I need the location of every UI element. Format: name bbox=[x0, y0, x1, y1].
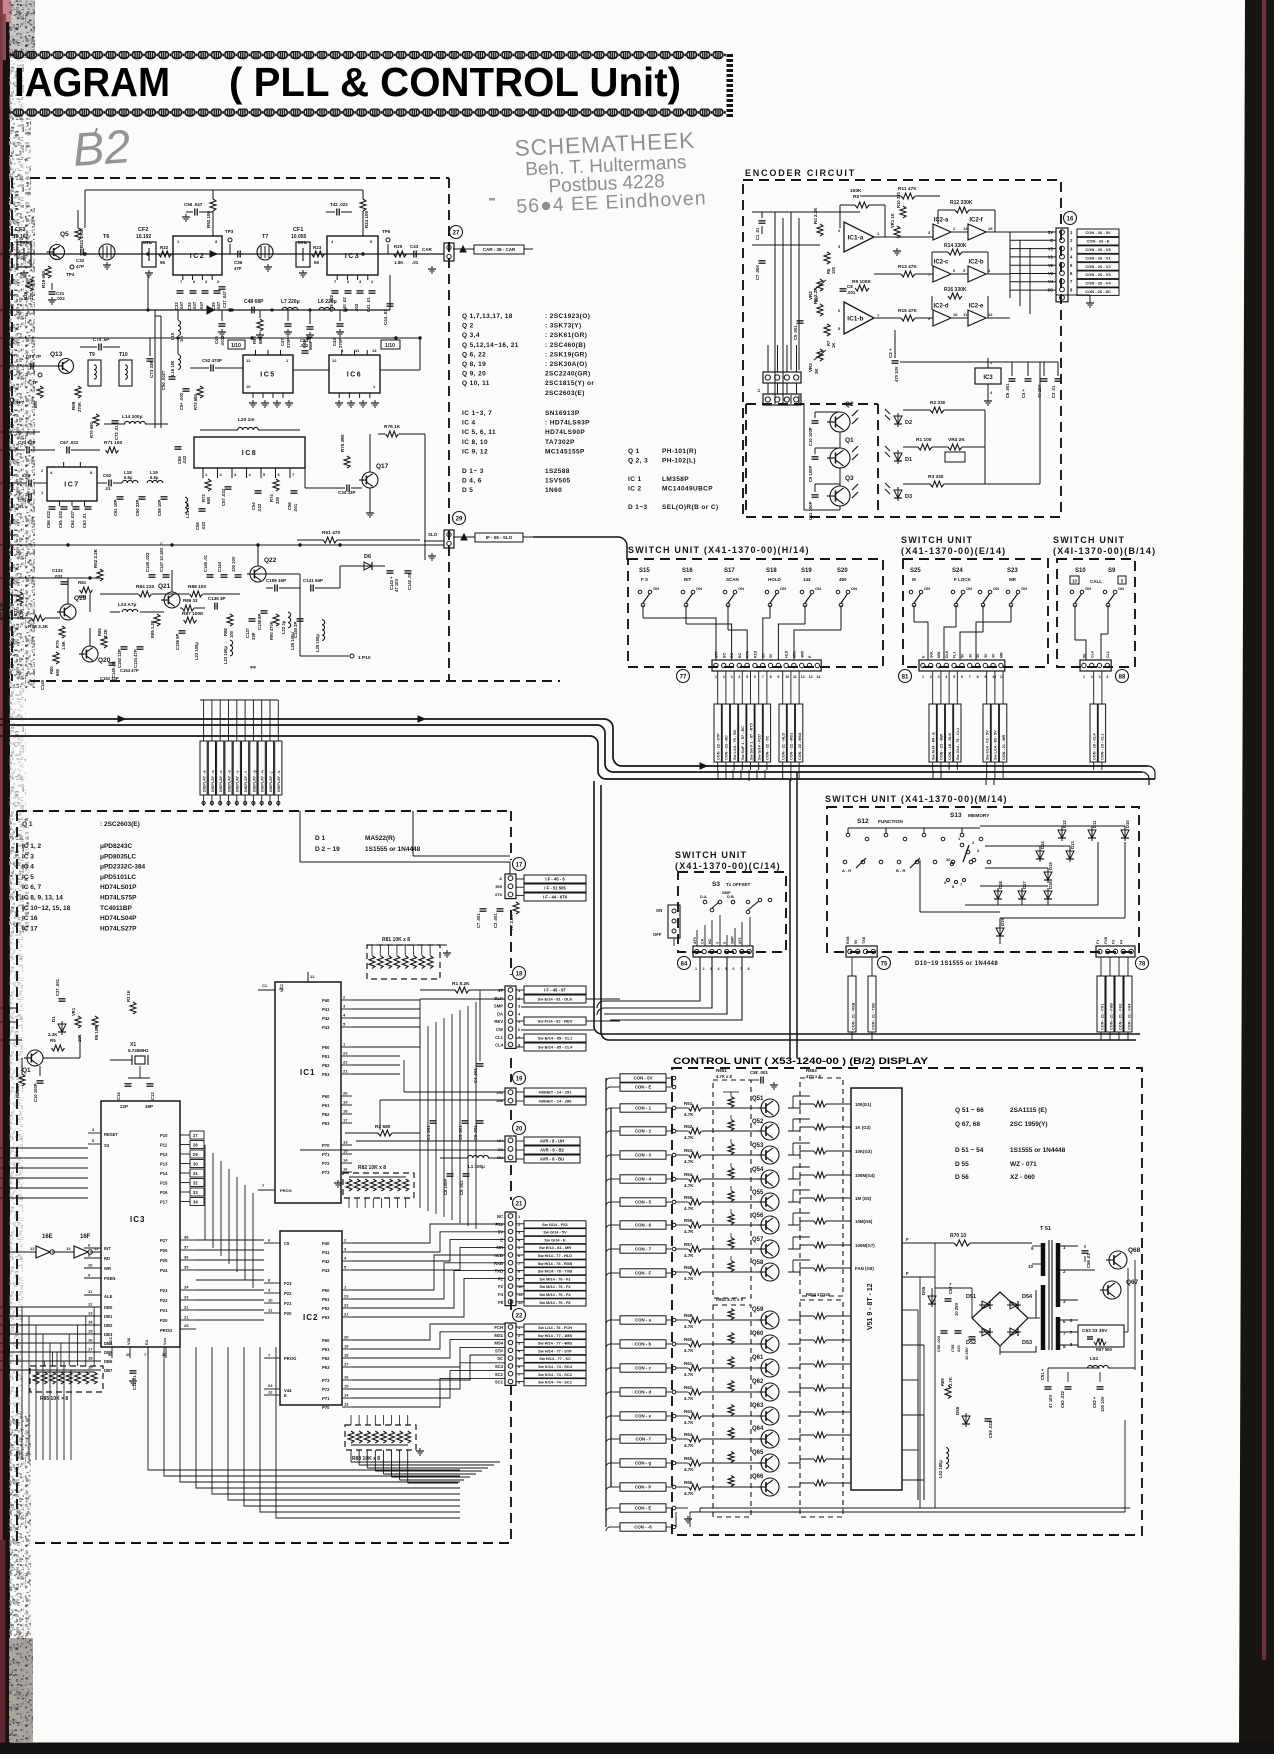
svg-text:4.7K: 4.7K bbox=[684, 1372, 694, 1377]
svg-text:PH-102(L): PH-102(L) bbox=[662, 458, 696, 465]
svg-text:680: 680 bbox=[33, 400, 38, 408]
svg-text:22P: 22P bbox=[120, 1104, 128, 1109]
capacitor C31 .022 bbox=[49, 291, 56, 293]
svg-text:CON - 21 - MR: CON - 21 - MR bbox=[1002, 734, 1006, 760]
IC3 box bbox=[327, 236, 378, 275]
svg-text:Sw E/14 - 81 - DLK: Sw E/14 - 81 - DLK bbox=[538, 996, 573, 1001]
svg-text:220: 220 bbox=[29, 292, 34, 300]
svg-text:DISPLAY - g: DISPLAY - g bbox=[252, 770, 256, 792]
svg-text:CON - 26 - V2: CON - 26 - V2 bbox=[1085, 264, 1111, 269]
transistor Q67 bbox=[1103, 1281, 1121, 1299]
wire SLO loop bbox=[532, 536, 534, 538]
svg-text:34: 34 bbox=[193, 1200, 198, 1205]
svg-text:C9 100P: C9 100P bbox=[808, 465, 813, 482]
capacitor C148 .022 bbox=[149, 574, 156, 576]
main signal wire row1 bbox=[0, 253, 444, 255]
svg-text:C51 +: C51 + bbox=[1040, 1368, 1045, 1380]
svg-text:C54: C54 bbox=[251, 502, 256, 510]
svg-text:SC: SC bbox=[497, 1356, 503, 1361]
diode D13 bbox=[1066, 851, 1074, 859]
svg-text:100(G1): 100(G1) bbox=[855, 1102, 872, 1107]
svg-text:Sw L/14 - 79 - BC: Sw L/14 - 79 - BC bbox=[733, 729, 737, 760]
svg-text:PH-101(R): PH-101(R) bbox=[662, 448, 697, 455]
display transistors Q59-Q66 bbox=[761, 1311, 779, 1329]
svg-text:R2 330: R2 330 bbox=[930, 400, 946, 406]
svg-text:A - R: A - R bbox=[842, 868, 851, 873]
svg-text:R65: R65 bbox=[684, 1456, 693, 1461]
svg-text:Q17: Q17 bbox=[376, 463, 389, 470]
svg-text:C58 .01: C58 .01 bbox=[1086, 1253, 1091, 1268]
transistor Q5 bbox=[50, 245, 65, 260]
svg-text:16: 16 bbox=[344, 1375, 349, 1380]
svg-text:CON - 21 - HLD: CON - 21 - HLD bbox=[782, 733, 786, 760]
svg-text:L35 100μ: L35 100μ bbox=[315, 634, 320, 652]
svg-text:OFF: OFF bbox=[653, 932, 662, 937]
svg-text:P21: P21 bbox=[160, 1308, 168, 1313]
capacitor C47 270P bbox=[285, 323, 292, 325]
svg-text:18: 18 bbox=[344, 1353, 349, 1358]
display inner verticals bbox=[934, 1243, 936, 1508]
svg-text:P61: P61 bbox=[322, 1103, 330, 1108]
svg-text:CF2: CF2 bbox=[138, 227, 148, 233]
resistor R70 680 bbox=[93, 414, 99, 426]
svg-text:22: 22 bbox=[516, 1313, 523, 1319]
svg-text:R16 330K: R16 330K bbox=[944, 287, 967, 293]
left DB bus wires bbox=[0, 1306, 84, 1308]
svg-text:4.7K: 4.7K bbox=[684, 1491, 694, 1496]
svg-text:Q22: Q22 bbox=[264, 557, 277, 564]
switch unit riser drops bbox=[717, 770, 719, 780]
capacitor C54 .022 bbox=[255, 490, 262, 492]
svg-text:R852 4.7K x 8: R852 4.7K x 8 bbox=[716, 1297, 744, 1302]
svg-text:C57 .022: C57 .022 bbox=[221, 488, 226, 506]
svg-text:SC4: SC4 bbox=[495, 1364, 504, 1369]
svg-text:SCAN: SCAN bbox=[726, 577, 739, 582]
svg-text:T6: T6 bbox=[103, 234, 109, 240]
svg-text:16F: 16F bbox=[80, 1234, 91, 1240]
svg-text:L20 1m: L20 1m bbox=[238, 417, 255, 423]
svg-text:D 51 ~ 54: D 51 ~ 54 bbox=[955, 1147, 984, 1154]
svg-text:Sw H/14 - 77 - HLD: Sw H/14 - 77 - HLD bbox=[538, 1253, 572, 1258]
svg-text:270K: 270K bbox=[77, 402, 82, 412]
svg-text:9: 9 bbox=[984, 675, 986, 679]
svg-text:D 1~ 3: D 1~ 3 bbox=[462, 468, 484, 475]
svg-text:13: 13 bbox=[66, 1246, 71, 1251]
display CON labels column bbox=[620, 1074, 666, 1082]
svg-text:3: 3 bbox=[731, 675, 733, 679]
svg-text:14: 14 bbox=[344, 1393, 349, 1398]
capacitor C34 33P bbox=[346, 485, 348, 492]
svg-text:17: 17 bbox=[88, 1347, 93, 1352]
svg-text:IC 2: IC 2 bbox=[628, 486, 642, 493]
svg-text:D13: D13 bbox=[1070, 841, 1075, 849]
VR1 10K bbox=[75, 1016, 81, 1028]
C/14 down wires to bus bbox=[604, 957, 700, 1001]
capacitor C13 39P bbox=[147, 1083, 154, 1085]
svg-text:38: 38 bbox=[184, 1235, 189, 1240]
svg-text:10: 10 bbox=[246, 384, 251, 389]
resistor R81 12K bbox=[80, 587, 93, 593]
svg-text:CON - f: CON - f bbox=[635, 1437, 651, 1442]
svg-text:L21 1m: L21 1m bbox=[185, 503, 190, 518]
svg-text:AVR - 8 - BU: AVR - 8 - BU bbox=[540, 1156, 564, 1161]
labels IF-45 bbox=[524, 875, 586, 883]
svg-text:PROG: PROG bbox=[280, 1188, 292, 1193]
svg-text:C159 16P: C159 16P bbox=[266, 578, 286, 583]
capacitor C2 470 10V bbox=[892, 360, 899, 362]
svg-text:10 25V: 10 25V bbox=[954, 1303, 959, 1316]
svg-text:IC2-b: IC2-b bbox=[969, 260, 984, 266]
capacitor C69 bbox=[28, 480, 30, 487]
resistor R3 1K bbox=[130, 1002, 136, 1014]
resistor R23 56 bbox=[312, 251, 325, 257]
svg-text:C66 .022: C66 .022 bbox=[46, 510, 51, 528]
svg-text:Q57: Q57 bbox=[752, 1237, 764, 1243]
wires row4 bbox=[257, 545, 259, 566]
svg-text:CON - 21 - FX1: CON - 21 - FX1 bbox=[1101, 1004, 1105, 1030]
svg-text:.022: .022 bbox=[201, 521, 206, 530]
svg-text:IC2-a: IC2-a bbox=[934, 218, 949, 224]
svg-text:P20: P20 bbox=[160, 1318, 168, 1323]
svg-text:MS4: MS4 bbox=[494, 1341, 503, 1346]
caps near connector 17 bbox=[480, 908, 487, 910]
capacitor C143 47 10V bbox=[387, 570, 394, 572]
svg-text:1: 1 bbox=[922, 675, 924, 679]
svg-text:IC2-f: IC2-f bbox=[969, 218, 983, 224]
svg-text:47P: 47P bbox=[234, 266, 242, 271]
transistor Q19 bbox=[60, 604, 76, 620]
svg-text:R5: R5 bbox=[853, 194, 859, 200]
diode D55 bbox=[928, 1296, 936, 1304]
resistor R4 15K bbox=[19, 1074, 25, 1086]
svg-text:RD: RD bbox=[104, 1256, 110, 1261]
svg-text:C37 .047: C37 .047 bbox=[222, 290, 227, 308]
svg-text:: HD74LS93P: : HD74LS93P bbox=[545, 420, 590, 427]
svg-text:B2: B2 bbox=[71, 119, 132, 176]
svg-text:C55: C55 bbox=[950, 1344, 955, 1352]
capacitor C52 100 10V bbox=[1097, 1386, 1104, 1388]
svg-text:R5: R5 bbox=[50, 1038, 56, 1043]
svg-text:R74: R74 bbox=[269, 494, 274, 502]
resistor R66 680 left bbox=[37, 386, 43, 398]
svg-text:DB2: DB2 bbox=[104, 1323, 113, 1328]
svg-text:IC 17: IC 17 bbox=[22, 925, 38, 932]
svg-text:CON - 5: CON - 5 bbox=[635, 1200, 652, 1205]
diode bridge D51-D54 bbox=[972, 1292, 1028, 1346]
svg-text:P16: P16 bbox=[160, 1190, 168, 1195]
LED D1 bbox=[894, 453, 902, 461]
capacitor C9 100P enc bbox=[812, 456, 819, 458]
svg-text:D-B: D-B bbox=[727, 895, 734, 899]
svg-text:DISPLAY - j: DISPLAY - j bbox=[269, 772, 273, 792]
display ribbon connector strips bbox=[200, 741, 207, 795]
encoder circuit dashed box bbox=[743, 180, 1061, 517]
inductor L21 1m bbox=[185, 497, 188, 513]
svg-text:1 P10: 1 P10 bbox=[358, 655, 371, 661]
svg-text:Q19: Q19 bbox=[74, 595, 87, 602]
svg-text:LM358P: LM358P bbox=[662, 476, 689, 483]
svg-text:CON - 22 - 5C: CON - 22 - 5C bbox=[766, 735, 770, 760]
svg-text:C147 10.16V: C147 10.16V bbox=[159, 547, 164, 572]
capacitor C140 2P bbox=[297, 618, 304, 620]
inductor L52 bbox=[946, 1448, 949, 1469]
svg-text:P71: P71 bbox=[322, 1152, 330, 1157]
svg-text:C2 +: C2 + bbox=[888, 348, 893, 358]
svg-text:C50 .0027: C50 .0027 bbox=[161, 370, 166, 390]
svg-text:TXB: TXB bbox=[862, 936, 866, 944]
capacitor C58 .022 bbox=[199, 508, 206, 510]
svg-text:CF3: CF3 bbox=[15, 227, 25, 233]
svg-text:R19 680: R19 680 bbox=[41, 270, 46, 288]
E/14 con labels column2 bbox=[983, 704, 990, 762]
SLO loop wire bbox=[533, 536, 612, 538]
svg-text:10 25V: 10 25V bbox=[964, 1347, 969, 1360]
svg-text:Sw H/14 - 77 - SC: Sw H/14 - 77 - SC bbox=[539, 1356, 571, 1361]
svg-text:CON - E: CON - E bbox=[635, 1506, 652, 1511]
svg-text:Sw J/14 - 75 - CL1: Sw J/14 - 75 - CL1 bbox=[956, 728, 960, 760]
svg-text:16: 16 bbox=[1067, 216, 1074, 222]
label IF-55-SLO bbox=[475, 533, 523, 542]
svg-text:CON - c: CON - c bbox=[635, 1366, 652, 1371]
svg-text:CL1: CL1 bbox=[495, 1035, 504, 1040]
svg-text:R67 550: R67 550 bbox=[1096, 1347, 1113, 1352]
capacitor C138 8P bbox=[261, 610, 268, 612]
svg-text:MHz: MHz bbox=[298, 240, 308, 245]
diode D12 bbox=[1058, 830, 1066, 838]
svg-text:L16 100: L16 100 bbox=[170, 360, 175, 376]
svg-text:D12: D12 bbox=[1062, 820, 1067, 828]
svg-text:5: 5 bbox=[723, 942, 727, 944]
capacitor C137 33P bbox=[249, 618, 256, 620]
svg-text:T42 .022: T42 .022 bbox=[330, 202, 348, 207]
labels at connector 20 bbox=[524, 1137, 580, 1145]
svg-text:8: 8 bbox=[977, 675, 979, 679]
svg-text:Q 6, 22: Q 6, 22 bbox=[462, 351, 486, 358]
svg-text:R77 3.3K: R77 3.3K bbox=[0, 602, 4, 620]
svg-text:23: 23 bbox=[343, 1051, 348, 1056]
svg-text:HLD: HLD bbox=[785, 650, 789, 658]
svg-text:R3 1K: R3 1K bbox=[126, 990, 131, 1002]
svg-text:IC 1, 2: IC 1, 2 bbox=[22, 843, 42, 850]
svg-text:10: 10 bbox=[946, 857, 951, 862]
capacitor C10 100P bbox=[812, 420, 819, 422]
control unit left dashed box bbox=[17, 810, 511, 812]
svg-text:Sw B/14 - 85 - CL4: Sw B/14 - 85 - CL4 bbox=[538, 1044, 573, 1049]
svg-text:R80: R80 bbox=[49, 666, 54, 674]
transistor Q13 bbox=[59, 359, 74, 374]
svg-text:P40: P40 bbox=[322, 1241, 330, 1246]
crystal filter CF1 bbox=[296, 242, 310, 267]
resistor R71 100 bbox=[106, 447, 119, 453]
wire bundle IC3 to IC2 bbox=[196, 1239, 264, 1241]
resistor R11 47K bbox=[901, 193, 915, 199]
svg-text:Sw #/14 - F3 - 5V: Sw #/14 - F3 - 5V bbox=[986, 730, 990, 760]
IC2 to connectors wire fan bbox=[352, 1224, 505, 1243]
svg-text:AF1: AF1 bbox=[738, 937, 742, 944]
svg-text:D10~19 1S1555 or 1N4448: D10~19 1S1555 or 1N4448 bbox=[915, 961, 998, 967]
svg-text:4.7K: 4.7K bbox=[684, 1276, 694, 1281]
svg-text:ON: ON bbox=[738, 586, 744, 591]
resistor R12 330K bbox=[955, 207, 969, 213]
svg-text:4.7K: 4.7K bbox=[684, 1112, 694, 1117]
bus arrowheads bbox=[118, 716, 125, 722]
svg-text:470 10V: 470 10V bbox=[894, 366, 899, 382]
svg-text:D52: D52 bbox=[966, 1340, 976, 1346]
svg-text:4.7K: 4.7K bbox=[684, 1206, 694, 1211]
svg-text:450: 450 bbox=[839, 577, 847, 582]
svg-text:1M (G5): 1M (G5) bbox=[855, 1196, 872, 1201]
svg-text:D14: D14 bbox=[1040, 841, 1045, 849]
svg-text:10M(G6): 10M(G6) bbox=[855, 1219, 873, 1224]
M/14 diode matrix wires bbox=[980, 825, 1125, 827]
svg-text:C154 47P: C154 47P bbox=[120, 668, 139, 673]
svg-text:R56: R56 bbox=[684, 1218, 693, 1223]
svg-text:P63: P63 bbox=[322, 1121, 330, 1126]
svg-text:Q3: Q3 bbox=[845, 475, 854, 482]
svg-text:TP3: TP3 bbox=[225, 229, 234, 234]
long vertical wires mid bbox=[419, 1030, 421, 1208]
svg-text:4.7K: 4.7K bbox=[684, 1396, 694, 1401]
svg-text:CON - 4: CON - 4 bbox=[635, 1177, 652, 1182]
svg-text:4M5: 4M5 bbox=[800, 651, 804, 658]
svg-text:IC2-d: IC2-d bbox=[934, 304, 949, 310]
svg-text:L51: L51 bbox=[1090, 1356, 1099, 1362]
svg-text:1N60: 1N60 bbox=[545, 487, 562, 494]
svg-text:S3: S3 bbox=[104, 1143, 110, 1148]
svg-text:IC5: IC5 bbox=[260, 371, 275, 378]
svg-text:Q59: Q59 bbox=[752, 1307, 764, 1313]
inductor L15 1m bbox=[178, 321, 181, 336]
svg-text:1: 1 bbox=[1083, 675, 1085, 679]
svg-text:FUNCTION: FUNCTION bbox=[878, 819, 903, 825]
svg-text:CON - 7: CON - 7 bbox=[635, 1247, 652, 1252]
svg-text:BC: BC bbox=[722, 652, 726, 658]
connector 22 bbox=[513, 1309, 526, 1322]
svg-text:P53: P53 bbox=[322, 1315, 330, 1320]
resistor R88b 100 bbox=[227, 614, 233, 626]
svg-text:CAR - 38 - CAR: CAR - 38 - CAR bbox=[483, 247, 516, 252]
resistor R22 56 bbox=[159, 251, 172, 257]
svg-text:ALE: ALE bbox=[104, 1294, 113, 1299]
H/14 con labels column2 bbox=[779, 704, 786, 762]
svg-text:4.7K: 4.7K bbox=[684, 1467, 694, 1472]
svg-text:C151 33P: C151 33P bbox=[4, 541, 9, 560]
buffer IC2-e bbox=[968, 310, 986, 326]
svg-text:CW: CW bbox=[496, 1027, 503, 1032]
capacitor C48 68P bbox=[251, 307, 253, 314]
resistor network R854 dashed bbox=[800, 1300, 843, 1517]
svg-text:R81: R81 bbox=[78, 580, 87, 585]
svg-text:2: 2 bbox=[703, 967, 705, 971]
svg-text:Sw L/14 - 80 - 5V: Sw L/14 - 80 - 5V bbox=[994, 730, 998, 760]
svg-text:Sw E/14 - 81 - MR: Sw E/14 - 81 - MR bbox=[539, 1245, 571, 1250]
svg-text:( PLL & CONTROL Unit): ( PLL & CONTROL Unit) bbox=[229, 59, 681, 105]
svg-text:SOL: SOL bbox=[929, 650, 933, 658]
svg-text:C52 +: C52 + bbox=[1092, 1396, 1097, 1408]
svg-text:DLK: DLK bbox=[494, 996, 503, 1001]
svg-text:DLK: DLK bbox=[945, 650, 949, 658]
capacitor C147 bbox=[163, 574, 170, 576]
svg-text:R88 100: R88 100 bbox=[188, 584, 206, 590]
left scan edge black bar bbox=[3, 0, 11, 1754]
svg-text:3V: 3V bbox=[976, 653, 980, 658]
svg-text:NC: NC bbox=[497, 1214, 503, 1219]
svg-text:Q13: Q13 bbox=[50, 351, 63, 358]
svg-text:D17: D17 bbox=[1022, 881, 1027, 889]
svg-text:R61: R61 bbox=[684, 1361, 693, 1366]
svg-text:P73: P73 bbox=[322, 1170, 330, 1175]
capacitor C51 47 10V bbox=[1045, 1386, 1052, 1388]
svg-text:84: 84 bbox=[681, 961, 688, 967]
svg-text:IC2-e: IC2-e bbox=[969, 304, 984, 310]
svg-text:Q64: Q64 bbox=[752, 1426, 764, 1432]
svg-text:47 10V: 47 10V bbox=[1048, 1395, 1053, 1408]
svg-text:R59: R59 bbox=[684, 1313, 693, 1318]
svg-text:P23: P23 bbox=[284, 1281, 292, 1286]
svg-text:C155 5P: C155 5P bbox=[175, 633, 180, 650]
resistor R51 470 bbox=[323, 537, 337, 543]
wire bus mid risers bbox=[147, 275, 149, 310]
svg-text:3V: 3V bbox=[984, 653, 988, 658]
svg-text:HD74LS27P: HD74LS27P bbox=[100, 925, 137, 932]
svg-text:IC3: IC3 bbox=[130, 1215, 145, 1224]
svg-text:.022: .022 bbox=[56, 296, 65, 301]
title banner right dashed corner bbox=[727, 54, 734, 57]
svg-text:CON - 26 - 5V: CON - 26 - 5V bbox=[1085, 230, 1111, 235]
svg-text:DISPLAY - h: DISPLAY - h bbox=[261, 770, 265, 792]
resistor R73 680 bbox=[205, 479, 211, 491]
svg-text:Sw M/14 - 76 - F2: Sw M/14 - 76 - F2 bbox=[539, 1284, 571, 1289]
svg-text:MHz: MHz bbox=[20, 240, 30, 245]
inductor L22 bbox=[288, 612, 291, 628]
svg-text:9: 9 bbox=[777, 675, 779, 679]
svg-text:CL4: CL4 bbox=[495, 1043, 504, 1048]
svg-text:P21: P21 bbox=[284, 1301, 292, 1306]
labels at connector 19 bbox=[524, 1088, 586, 1096]
svg-text:560P: 560P bbox=[308, 340, 313, 350]
svg-text:C1 .001: C1 .001 bbox=[426, 1125, 431, 1140]
wire bus row2 bbox=[0, 337, 420, 339]
resistor R93 680 bbox=[257, 319, 263, 331]
svg-text:31: 31 bbox=[193, 1171, 198, 1176]
svg-text:EA: EA bbox=[144, 1339, 149, 1345]
svg-text:Sw F/14 - 82 - REV: Sw F/14 - 82 - REV bbox=[538, 1018, 573, 1023]
svg-text:I F - 45 - 9T: I F - 45 - 9T bbox=[544, 987, 566, 992]
capacitor C7 .004 bbox=[759, 260, 766, 262]
resistor R24 100 bbox=[360, 199, 366, 211]
svg-text:P52: P52 bbox=[322, 1306, 330, 1311]
capacitor C53 .022 bbox=[302, 350, 309, 352]
svg-text:IC 1: IC 1 bbox=[628, 476, 642, 483]
capacitor C68 .022 bbox=[175, 446, 182, 448]
svg-text:Q 3,4: Q 3,4 bbox=[462, 332, 480, 339]
svg-text:P72: P72 bbox=[322, 1387, 330, 1392]
svg-text:C56 .047: C56 .047 bbox=[184, 202, 203, 207]
capacitor C8 .001 bbox=[840, 288, 847, 290]
svg-text:2SC2240(GR): 2SC2240(GR) bbox=[545, 371, 591, 378]
svg-text:C141 56P: C141 56P bbox=[303, 578, 323, 583]
diode D11 bbox=[1088, 830, 1096, 838]
svg-text:VCC: VCC bbox=[108, 1336, 113, 1345]
LED D3 bbox=[894, 490, 902, 498]
title banner chain border top bbox=[10, 51, 726, 61]
test point TPF bbox=[38, 373, 42, 377]
svg-text:19: 19 bbox=[88, 1365, 93, 1370]
svg-text:R82 10K x 8: R82 10K x 8 bbox=[358, 1165, 386, 1171]
svg-text:CAR: CAR bbox=[422, 247, 432, 252]
svg-text:Q 1: Q 1 bbox=[628, 448, 640, 455]
svg-text:.0012: .0012 bbox=[220, 335, 225, 346]
